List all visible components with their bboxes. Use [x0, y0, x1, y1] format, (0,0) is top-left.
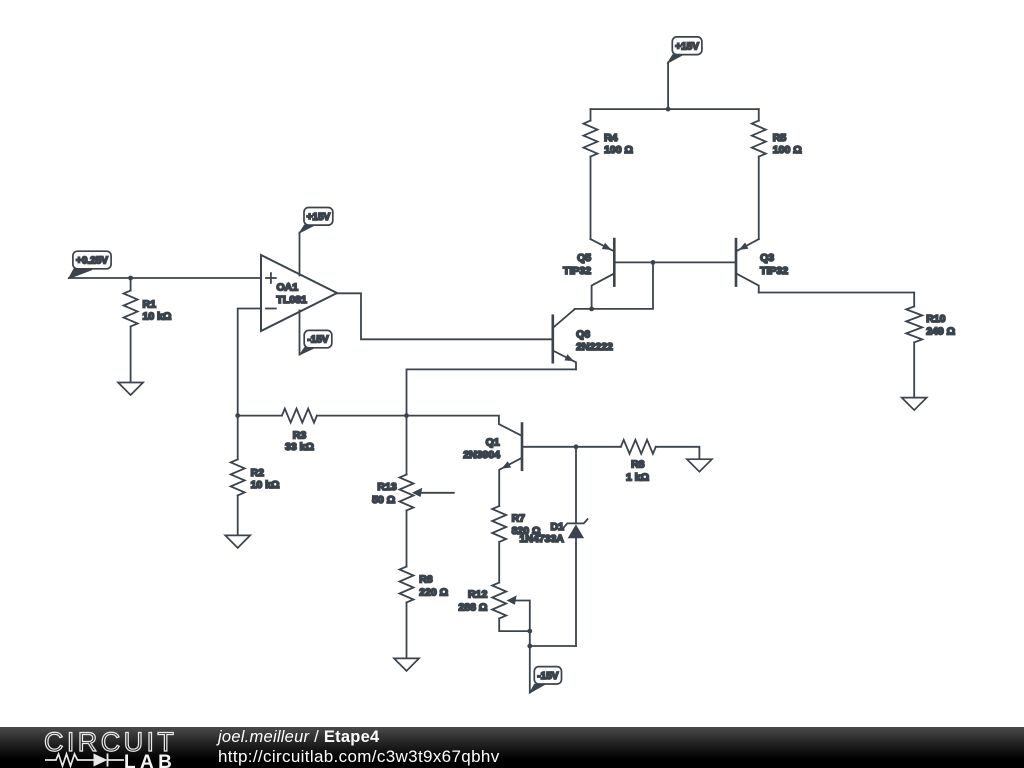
footer byline	[218, 728, 379, 747]
svg-text:R7: R7	[512, 513, 526, 525]
footer bar	[0, 727, 1024, 768]
svg-text:288 Ω: 288 Ω	[458, 602, 487, 614]
wire op-amp V+ pin	[299, 233, 301, 276]
resistor R1 10k	[130, 278, 132, 291]
CircuitLab logo text	[44, 727, 194, 758]
svg-text:R10: R10	[926, 313, 945, 325]
svg-text:2N2222: 2N2222	[576, 341, 613, 353]
potentiometer R13 50	[406, 416, 408, 475]
node R12 wiper junction	[527, 629, 532, 634]
svg-text:R5: R5	[773, 132, 787, 144]
wire input to op-amp +	[69, 277, 261, 279]
potentiometer R12 288	[492, 583, 506, 619]
svg-text:249 Ω: 249 Ω	[926, 326, 955, 338]
svg-text:R1: R1	[143, 298, 157, 310]
svg-text:TIP32: TIP32	[760, 265, 788, 277]
ground (R6)	[394, 658, 419, 671]
wire op-amp inverting input to feedback node	[238, 309, 261, 416]
wire op-amp V- pin	[299, 311, 301, 355]
ground (R8)	[687, 459, 712, 472]
svg-text:+0.25V: +0.25V	[76, 256, 108, 267]
svg-text:OA1: OA1	[277, 282, 299, 294]
wire R12/D1 to -15V	[529, 631, 531, 693]
CircuitLab logo squiggle	[0, 727, 200, 768]
wire +15V rail	[591, 108, 759, 110]
transistor Q5 TIP32	[613, 239, 616, 286]
svg-text:D1: D1	[550, 521, 564, 533]
node base bus junction	[651, 260, 656, 265]
node Q5 collector junction	[589, 307, 594, 312]
node R3/R13/Q6 junction	[404, 413, 409, 418]
svg-text:Q5: Q5	[577, 252, 591, 264]
resistor R7 820	[492, 506, 506, 542]
diode D1 1N4733A zener	[575, 447, 577, 524]
wire Q6 emitter to R13 node	[407, 369, 577, 415]
wire Q3 collector to R10	[759, 293, 914, 307]
ground (R2)	[225, 535, 250, 548]
ground (R10)	[902, 398, 927, 411]
resistor R5 100	[758, 109, 760, 121]
svg-text:100 Ω: 100 Ω	[773, 144, 802, 156]
svg-text:R4: R4	[604, 132, 618, 144]
node -15V flag (bottom)	[530, 684, 545, 693]
wire Q6 collector bus	[575, 262, 653, 309]
node -15V flag (op-amp)	[300, 348, 315, 355]
svg-text:R3: R3	[293, 429, 307, 441]
node +15V flag (op-amp)	[300, 225, 315, 233]
svg-text:TL081: TL081	[277, 294, 308, 306]
svg-text:50 Ω: 50 Ω	[372, 494, 395, 506]
svg-text:220 Ω: 220 Ω	[419, 586, 448, 598]
resistor R10 249	[906, 306, 922, 342]
svg-text:33 kΩ: 33 kΩ	[285, 441, 314, 453]
wire R3 node to Q1 collector	[407, 416, 523, 436]
svg-text:-15V: -15V	[537, 671, 558, 682]
node +15V flag (rail)	[668, 55, 683, 63]
wire Q5-Q3 base bus	[614, 261, 736, 263]
resistor R8 1k	[576, 446, 621, 448]
svg-text:2N3904: 2N3904	[463, 449, 500, 461]
svg-text:R12: R12	[468, 589, 487, 601]
svg-text:100 Ω: 100 Ω	[604, 144, 633, 156]
svg-text:R13: R13	[377, 481, 396, 493]
svg-text:1 kΩ: 1 kΩ	[626, 471, 649, 483]
transistor Q6 2N2222	[551, 316, 554, 363]
transistor Q1 2N3904	[521, 424, 524, 470]
svg-text:Q3: Q3	[760, 252, 774, 264]
node input junction	[128, 276, 133, 281]
node feedback junction	[235, 413, 240, 418]
svg-text:Q6: Q6	[576, 328, 590, 340]
wire op-amp output to Q6 base	[337, 293, 553, 339]
svg-text:+15V: +15V	[307, 212, 331, 223]
resistor R6 220	[400, 567, 414, 603]
node -15V junction	[527, 644, 532, 649]
svg-text:R8: R8	[631, 458, 645, 470]
resistor R2 10k	[237, 416, 239, 460]
svg-text:R6: R6	[419, 574, 433, 586]
node +0.25V flag	[69, 269, 92, 279]
node Q1 base junction	[574, 444, 579, 449]
node +15V rail junction	[666, 107, 671, 112]
svg-text:TIP32: TIP32	[563, 265, 591, 277]
resistor R3 33k	[238, 415, 282, 417]
resistor R4 100	[590, 109, 592, 121]
svg-text:Q1: Q1	[486, 437, 500, 449]
svg-text:10 kΩ: 10 kΩ	[251, 479, 280, 491]
svg-text:-15V: -15V	[307, 335, 328, 346]
op-amp U1 OA1 TL081	[261, 255, 337, 331]
svg-text:1N4733A: 1N4733A	[520, 533, 565, 545]
svg-text:10 kΩ: 10 kΩ	[143, 311, 172, 323]
svg-text:+15V: +15V	[675, 41, 699, 52]
svg-text:R2: R2	[251, 467, 265, 479]
transistor Q3 TIP32	[735, 239, 738, 286]
ground (R1)	[118, 383, 143, 396]
